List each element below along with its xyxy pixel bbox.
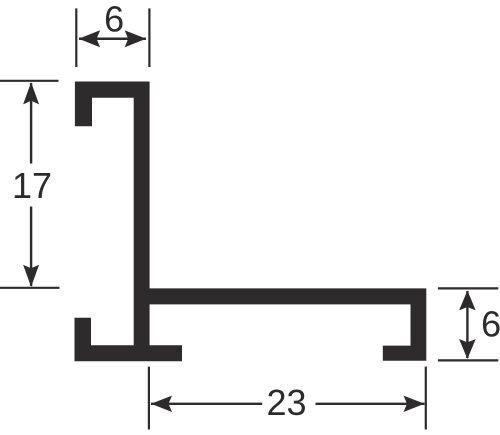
dimension 6 top: right arrowhead	[125, 30, 147, 47]
dimension 23 bottom: right arrowhead	[404, 396, 425, 412]
dimension 6 right: top extension line	[438, 287, 498, 289]
dimension 17 left: top extension line	[0, 80, 59, 82]
svg-text:23: 23	[266, 382, 306, 423]
svg-text:17: 17	[12, 165, 52, 206]
dimension 23 bottom: dimension line right segment	[316, 403, 425, 405]
dimension 6 top: left extension line	[75, 8, 77, 67]
dimension 6 right: bottom extension line	[438, 359, 498, 361]
dimension 6 right: up arrowhead	[459, 290, 476, 310]
dimension 17 left: dimension line upper segment	[30, 83, 32, 164]
dimension 17 left: bottom extension line	[0, 287, 60, 289]
dimension 23 bottom: left arrowhead	[151, 396, 172, 412]
svg-text:6: 6	[481, 304, 500, 345]
dimension 6 right: dimension line	[466, 291, 468, 358]
dimension 17 left: up arrowhead	[23, 82, 39, 104]
svg-text:6: 6	[104, 0, 124, 40]
profile cross-section	[75, 82, 427, 362]
dimension 23 bottom: right extension line	[425, 367, 427, 430]
dimension 23 bottom: left extension line	[148, 367, 150, 430]
dimension 17 left: down arrowhead	[23, 265, 39, 287]
dimension 23 bottom: dimension line left segment	[151, 403, 262, 405]
dimension 6 right: down arrowhead	[459, 339, 476, 359]
dimension 6 top: right extension line	[148, 8, 150, 67]
dimension 6 top: left arrowhead	[79, 30, 101, 47]
dimension 17 left: dimension line lower segment	[30, 207, 32, 287]
dimension 6 top: dimension line	[79, 38, 146, 41]
